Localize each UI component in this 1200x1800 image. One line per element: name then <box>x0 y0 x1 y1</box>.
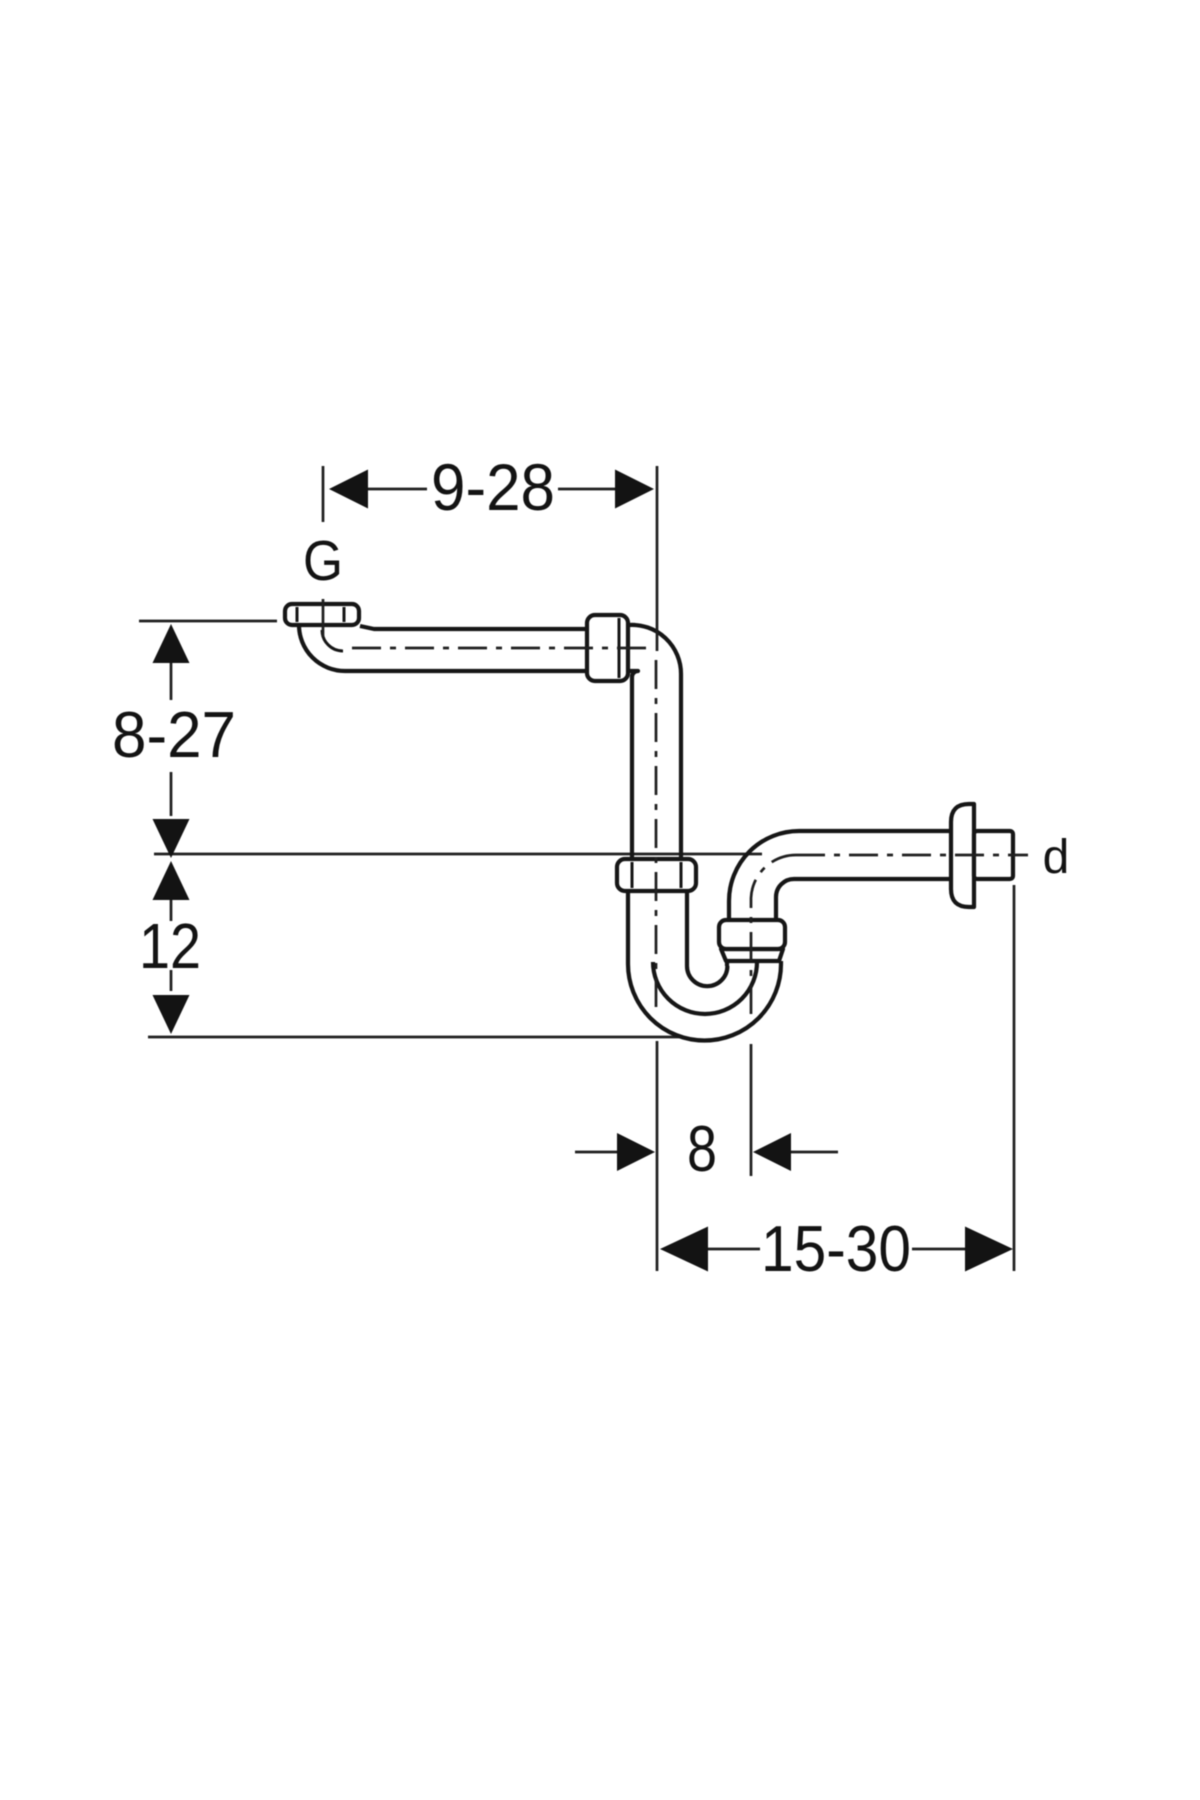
extension line right of 9-28 <box>656 466 659 651</box>
dimension 8-27 <box>112 624 236 858</box>
wall flange rosette <box>951 804 974 907</box>
U-bend inner hole <box>687 966 727 986</box>
arrowhead left 9-28 <box>329 470 368 509</box>
extension line right of 15-30 <box>1013 885 1016 1271</box>
svg-text:d: d <box>1043 831 1070 884</box>
svg-text:G: G <box>303 529 343 593</box>
inlet nut G <box>285 604 359 625</box>
arrowhead down 8-27 <box>153 819 190 858</box>
arrowhead up 8-27 <box>153 624 190 663</box>
extension line left of 9-28 <box>322 466 325 637</box>
dimension 8 <box>575 1041 838 1271</box>
dimension 9-28 <box>323 450 657 651</box>
svg-text:15-30: 15-30 <box>761 1212 911 1285</box>
wire: top reference line (inlet level) <box>139 620 277 623</box>
wire: bottom reference line (trap bottom level) <box>148 1036 680 1039</box>
outlet elbow and upstand <box>729 831 951 920</box>
dimension 12 <box>139 861 201 1034</box>
elbow down (pipe bend) <box>628 625 681 858</box>
arrowhead left 15-30 <box>660 1227 708 1272</box>
svg-text:8: 8 <box>687 1112 717 1185</box>
inlet pipe (horizontal tailpiece) <box>299 625 585 671</box>
svg-text:9-28: 9-28 <box>431 450 555 524</box>
collar flange under right nut <box>721 949 783 961</box>
right upstand stubs below collar <box>727 961 781 966</box>
extension line left of 8 (shared with 15-30) <box>656 1041 659 1271</box>
arrowhead up 12 <box>153 861 190 900</box>
outlet pipe end stub <box>974 831 1013 879</box>
arrowhead right 9-28 <box>615 470 654 509</box>
arrowhead pointing left at 8 <box>753 1133 791 1171</box>
wire: middle reference line (outlet axis level) <box>154 853 762 856</box>
trap inlet tube <box>628 891 687 966</box>
right nut <box>719 920 785 949</box>
dimension line 9-28 <box>366 488 616 491</box>
elbow nut <box>587 615 628 681</box>
arrowhead pointing right at 8 <box>617 1133 655 1171</box>
dimension 15-30 <box>660 885 1014 1285</box>
trap nut (large) <box>617 859 696 891</box>
extension line right of 8 <box>750 1044 753 1176</box>
arrowhead down 12 <box>153 995 190 1034</box>
arrowhead right 15-30 <box>965 1227 1013 1272</box>
svg-text:12: 12 <box>139 910 201 982</box>
centerline: vertical down-pipe axis <box>655 660 658 1008</box>
label d <box>1043 831 1070 884</box>
centerline: right upstand axis <box>751 855 796 1014</box>
U-bend outer wall <box>628 964 781 1041</box>
centerline: outlet axis <box>796 854 1028 857</box>
label G <box>303 529 343 593</box>
U-bend mid wall line <box>653 962 757 1014</box>
centerline: horizontal inlet axis <box>352 647 650 650</box>
svg-text:8-27: 8-27 <box>112 698 236 771</box>
